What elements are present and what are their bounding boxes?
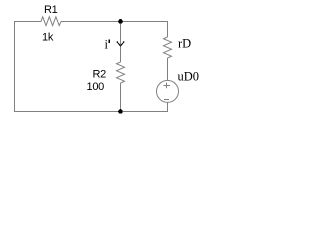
wire left vertical [14, 21, 16, 112]
svg-text:R1: R1 [44, 4, 58, 16]
svg-text:uD0: uD0 [178, 70, 200, 84]
resistor R2 [117, 62, 125, 83]
wire right vertical lower [167, 102, 169, 111]
wire right vertical upper [167, 21, 169, 37]
wire middle branch lower [120, 83, 122, 112]
wire top middle horizontal [61, 21, 168, 23]
plus sign [164, 85, 171, 87]
wire bottom horizontal [14, 111, 168, 113]
wire middle branch upper [120, 22, 122, 63]
junction node bottom [118, 109, 123, 114]
resistor R1 [41, 17, 61, 26]
svg-text:1k: 1k [42, 32, 54, 44]
wire top-left horizontal [14, 21, 41, 23]
voltage source uD0 [157, 80, 179, 102]
svg-text:rD: rD [178, 37, 191, 51]
junction node top [118, 19, 123, 24]
svg-text:100: 100 [87, 81, 105, 93]
minus sign [164, 99, 169, 101]
current arrow i' [117, 41, 125, 46]
wire right vertical middle [167, 58, 169, 80]
resistor rD [164, 37, 172, 58]
svg-text:i: i [105, 38, 109, 52]
svg-text:R2: R2 [93, 69, 107, 81]
